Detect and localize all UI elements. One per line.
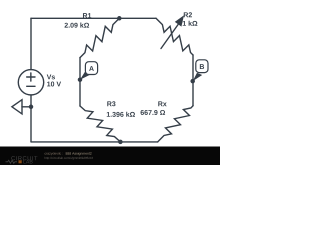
junction bottom R3/Rx <box>118 140 123 145</box>
resistor R3 <box>80 106 120 142</box>
label R3 <box>107 101 115 106</box>
junction top R1 tap <box>117 16 122 21</box>
R2 wiper arrow shaft <box>161 25 178 49</box>
node A flag tail <box>80 72 90 80</box>
value R3 <box>107 112 135 117</box>
voltage source Vs <box>18 70 43 95</box>
node B dot <box>190 79 195 84</box>
watermark text line1a <box>45 152 63 155</box>
wire left vertical lower <box>30 95 32 142</box>
resistor R2 variable <box>156 18 193 55</box>
wire node A to R3 <box>79 80 81 106</box>
label R2 <box>184 12 192 17</box>
value Vs <box>47 82 61 87</box>
node A dot <box>78 77 83 82</box>
label Vs <box>47 74 55 79</box>
node B flag box <box>196 60 208 73</box>
ground triangle <box>12 100 22 114</box>
resistor R1 <box>80 18 119 57</box>
R2 arrowhead <box>175 15 184 26</box>
watermark bar <box>0 147 220 166</box>
wire top horizontal <box>31 17 156 19</box>
logo zigzag <box>6 160 18 163</box>
watermark text line1b <box>66 152 92 155</box>
logo LAB <box>23 160 32 164</box>
value R1 <box>65 23 90 28</box>
value R2 <box>183 21 198 26</box>
label R1 <box>83 13 91 18</box>
logo CIRCUIT <box>11 156 37 160</box>
node A flag box <box>85 62 97 75</box>
node A letter <box>89 66 94 71</box>
wire bottom horizontal <box>31 141 158 143</box>
value Rx <box>141 110 166 115</box>
label Rx <box>158 101 166 106</box>
node B flag tail <box>193 73 203 81</box>
wire R1 to node A <box>79 58 81 80</box>
resistor Rx <box>158 106 193 142</box>
wire left vertical upper <box>30 18 32 69</box>
node B letter <box>200 64 204 69</box>
wire Rx to node B <box>192 81 194 106</box>
logo LAB block <box>19 160 22 163</box>
ground stub <box>22 106 31 108</box>
watermark text line2 <box>45 157 93 160</box>
wire R2 to node B <box>192 55 194 81</box>
junction ground <box>29 105 34 110</box>
